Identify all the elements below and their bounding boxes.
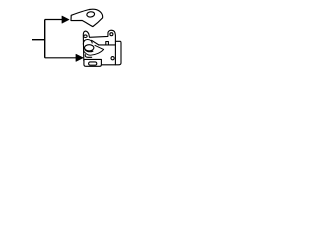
- tab ring hole: [110, 33, 113, 36]
- arrowhead: top arrow: [62, 16, 69, 23]
- arrowhead: bottom arrow: [76, 54, 84, 61]
- wedge lever line: [95, 45, 104, 49]
- key hole: [86, 11, 94, 17]
- boss inner ellipse: [85, 45, 94, 51]
- key outline: [71, 9, 103, 26]
- scoop curve under boss: [84, 49, 104, 55]
- diagonal from boss to ledge: [92, 40, 99, 45]
- bottom-right hole: [111, 57, 114, 60]
- ledge horizontal line: [99, 44, 116, 46]
- cylinder lip under ellipse: [85, 50, 93, 52]
- neck line: [85, 55, 91, 58]
- bottom tab: [84, 59, 102, 66]
- tab slot: [89, 62, 97, 65]
- boss outer arc: [83, 39, 92, 44]
- wire: top branch: [45, 19, 63, 21]
- lock assembly outline: [83, 30, 121, 66]
- ear hole: [84, 35, 88, 38]
- wire: bracket vertical: [44, 20, 46, 58]
- window notch above ledge: [106, 42, 109, 45]
- outer boundary: left edge, ear, top edge, tab, vertical, step, right edge, bottom edge: [83, 30, 115, 65]
- wire: middle feed line: [32, 39, 45, 41]
- wire: bottom branch: [45, 57, 76, 59]
